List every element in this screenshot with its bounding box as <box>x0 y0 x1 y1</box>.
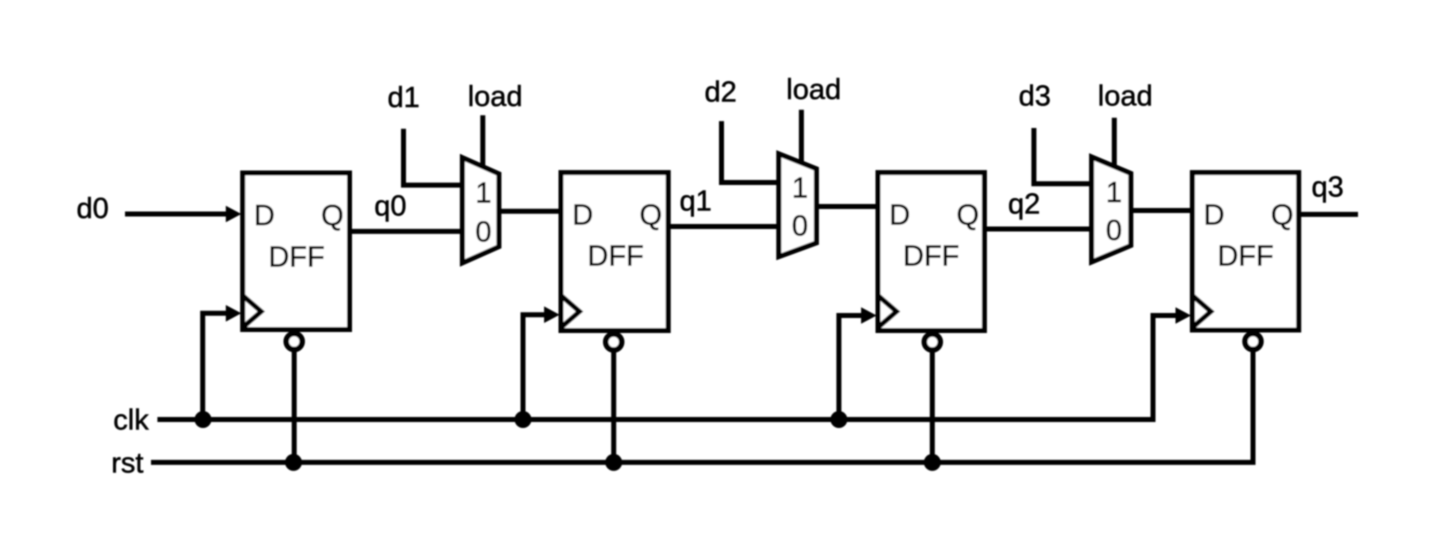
svg-text:q2: q2 <box>1008 189 1040 221</box>
svg-text:q0: q0 <box>374 191 406 223</box>
svg-text:Q: Q <box>956 200 979 232</box>
junction dot rst/U3 <box>924 454 941 471</box>
wire rst rail <box>151 352 1253 463</box>
svg-text:d2: d2 <box>705 76 737 108</box>
svg-text:q3: q3 <box>1312 172 1344 204</box>
wire load select M1 <box>480 115 485 168</box>
mux M1 body <box>462 158 499 263</box>
flip-flop U3 DFF box <box>878 173 984 331</box>
wire rst drop U1 <box>292 352 297 463</box>
wire clk riser U1 <box>203 313 228 419</box>
svg-text:0: 0 <box>1106 215 1122 247</box>
wire load select M3 <box>1112 118 1117 167</box>
arrowhead clk into U1 <box>226 305 242 322</box>
wire d0 input <box>125 212 228 217</box>
wire clk rail <box>157 316 1176 420</box>
reset bubble U2 <box>606 334 622 350</box>
junction dot clk/U2 <box>515 411 532 428</box>
svg-text:D: D <box>889 200 910 232</box>
wire d2 into M2 in1 <box>722 121 779 182</box>
clock edge triangle U4 <box>1192 296 1211 328</box>
junction dot rst/U1 <box>285 454 302 471</box>
svg-text:1: 1 <box>792 173 808 205</box>
junction dot rst/U2 <box>605 454 622 471</box>
arrowhead clk into U4 <box>1176 307 1192 324</box>
svg-text:D: D <box>254 200 275 232</box>
wire d3 into M3 in1 <box>1034 128 1092 184</box>
wire M1 out to U2 D <box>499 209 561 214</box>
svg-text:0: 0 <box>792 210 808 242</box>
svg-text:1: 1 <box>1106 177 1122 209</box>
svg-text:0: 0 <box>475 217 491 249</box>
wire q1 net (U2 Q to M2 in0) <box>668 224 779 229</box>
reset bubble U3 <box>924 334 940 350</box>
svg-text:rst: rst <box>111 448 143 480</box>
svg-text:DFF: DFF <box>903 241 959 273</box>
wire d1 into M1 in1 <box>404 129 463 185</box>
wire clk riser U2 <box>523 315 547 420</box>
wire q0 net (U1 Q to M1 in0) <box>350 229 463 234</box>
wire M3 out to U4 D <box>1131 208 1193 213</box>
svg-text:Q: Q <box>321 200 344 232</box>
clock edge triangle U3 <box>878 296 897 328</box>
clock edge triangle U2 <box>561 296 580 328</box>
svg-text:d1: d1 <box>388 82 420 114</box>
svg-text:DFF: DFF <box>587 241 643 273</box>
reset bubble U1 <box>286 334 302 350</box>
svg-text:DFF: DFF <box>1217 241 1273 273</box>
arrowhead clk into U2 <box>544 306 560 323</box>
mux M2 body <box>779 154 817 257</box>
wire q2 net (U3 Q to M3 in0) <box>984 227 1091 232</box>
svg-text:D: D <box>1204 200 1225 232</box>
svg-text:DFF: DFF <box>268 242 324 274</box>
svg-text:Q: Q <box>1271 200 1294 232</box>
mux M3 body <box>1092 157 1131 262</box>
svg-text:load: load <box>468 81 523 113</box>
svg-text:load: load <box>1098 80 1153 112</box>
flip-flop U4 DFF box <box>1192 173 1298 330</box>
svg-text:clk: clk <box>113 405 149 437</box>
svg-text:D: D <box>572 200 593 232</box>
junction dot clk/U1 <box>195 411 212 428</box>
flip-flop U1 DFF box <box>243 173 350 330</box>
wire clk riser U3 <box>839 316 863 420</box>
svg-text:1: 1 <box>475 178 491 210</box>
wire load select M2 <box>799 110 804 164</box>
arrowhead clk into U3 <box>861 307 877 324</box>
svg-text:q1: q1 <box>680 186 712 218</box>
wire rst drop U3 <box>930 352 935 462</box>
wire q3 output <box>1299 212 1358 217</box>
arrowhead d0 into U1 <box>226 206 242 223</box>
wire rst drop U2 <box>611 352 616 462</box>
svg-text:d3: d3 <box>1019 80 1051 112</box>
clock edge triangle U1 <box>243 296 262 328</box>
svg-text:Q: Q <box>639 200 662 232</box>
flip-flop U2 DFF box <box>561 173 668 331</box>
svg-text:load: load <box>786 74 841 106</box>
junction dot clk/U3 <box>830 411 847 428</box>
svg-text:d0: d0 <box>77 193 109 225</box>
wire M2 out to U3 D <box>816 204 878 209</box>
reset bubble U4 <box>1245 334 1261 350</box>
